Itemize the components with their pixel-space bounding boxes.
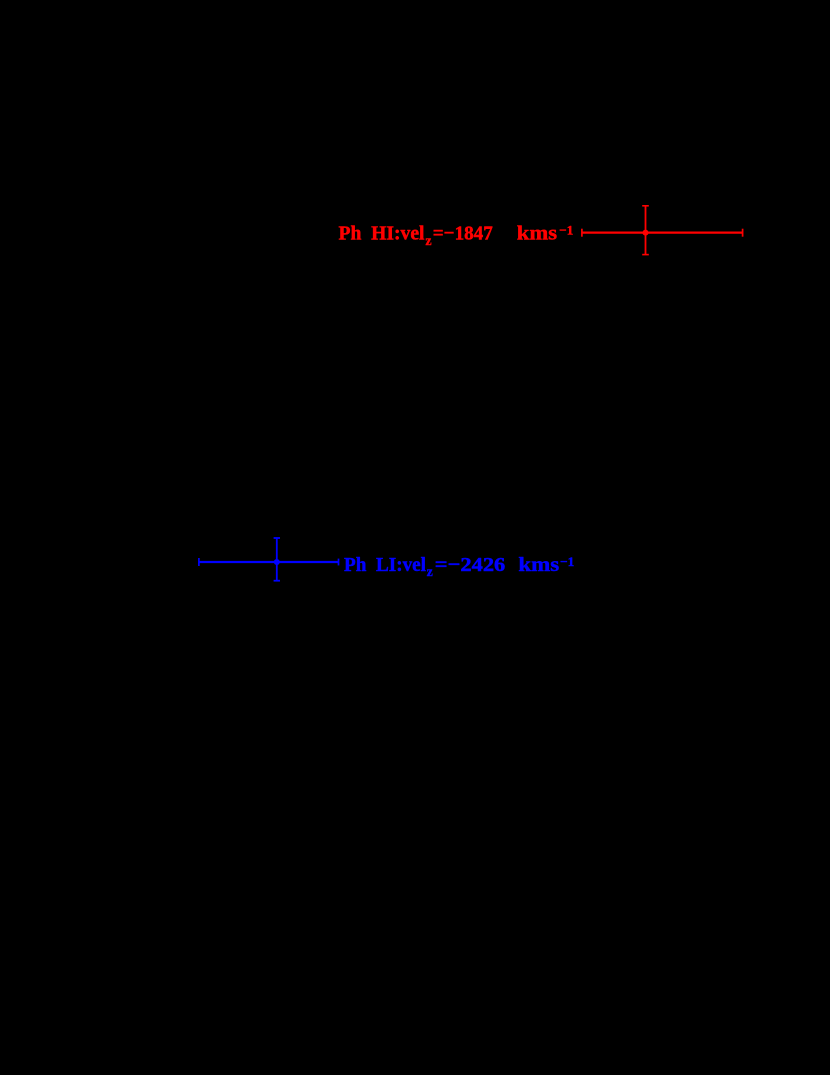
red top cap bbox=[642, 205, 649, 207]
svg-text:−1: −1 bbox=[559, 222, 573, 237]
svg-text:Ph LI:vel: Ph LI:vel bbox=[344, 554, 426, 576]
svg-text:=−1847: =−1847 bbox=[433, 223, 493, 245]
blue data point bbox=[274, 559, 280, 565]
svg-text:=−2426: =−2426 bbox=[435, 554, 506, 576]
svg-text:kms: kms bbox=[518, 554, 559, 576]
red left cap bbox=[581, 229, 583, 237]
blue top cap bbox=[274, 537, 280, 539]
svg-text:−1: −1 bbox=[560, 554, 574, 569]
blue horizontal error bar bbox=[199, 561, 339, 563]
svg-text:z: z bbox=[425, 234, 431, 249]
red vertical error bar bbox=[645, 206, 647, 255]
red horizontal error bar bbox=[582, 232, 743, 234]
svg-text:z: z bbox=[427, 565, 433, 580]
blue left cap bbox=[198, 558, 200, 566]
blue right cap bbox=[338, 559, 340, 566]
svg-text:kms: kms bbox=[517, 223, 557, 245]
red data point bbox=[643, 230, 649, 236]
blue vertical error bar bbox=[276, 538, 278, 581]
svg-text:Ph HI:vel: Ph HI:vel bbox=[339, 223, 425, 245]
blue bottom cap bbox=[274, 580, 280, 582]
red bottom cap bbox=[642, 254, 649, 256]
red right cap bbox=[742, 229, 744, 237]
